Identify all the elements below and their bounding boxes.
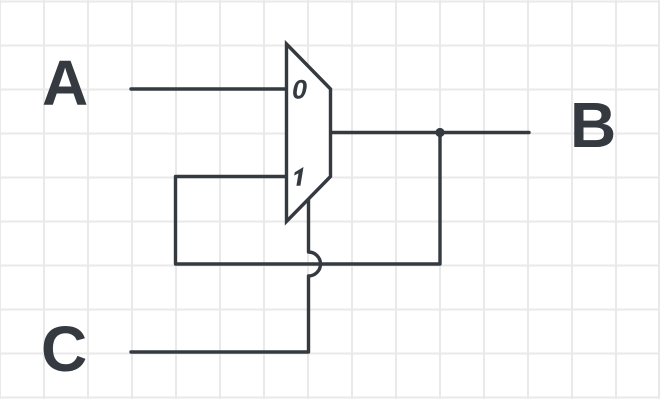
svg-text:A: A (42, 47, 88, 119)
svg-text:B: B (570, 89, 616, 161)
svg-text:0: 0 (292, 74, 307, 104)
multiplexer U1 (287, 44, 331, 222)
junction dot at node B (435, 128, 444, 137)
svg-text:C: C (41, 313, 87, 385)
mux input label 1 (294, 167, 303, 186)
wire C to mux select with hop over feedback wire (131, 199, 321, 352)
wire feedback from node B to mux input 1 (176, 133, 441, 265)
wire mux output to node B (331, 131, 530, 134)
wire A to mux input 0 (131, 87, 287, 90)
